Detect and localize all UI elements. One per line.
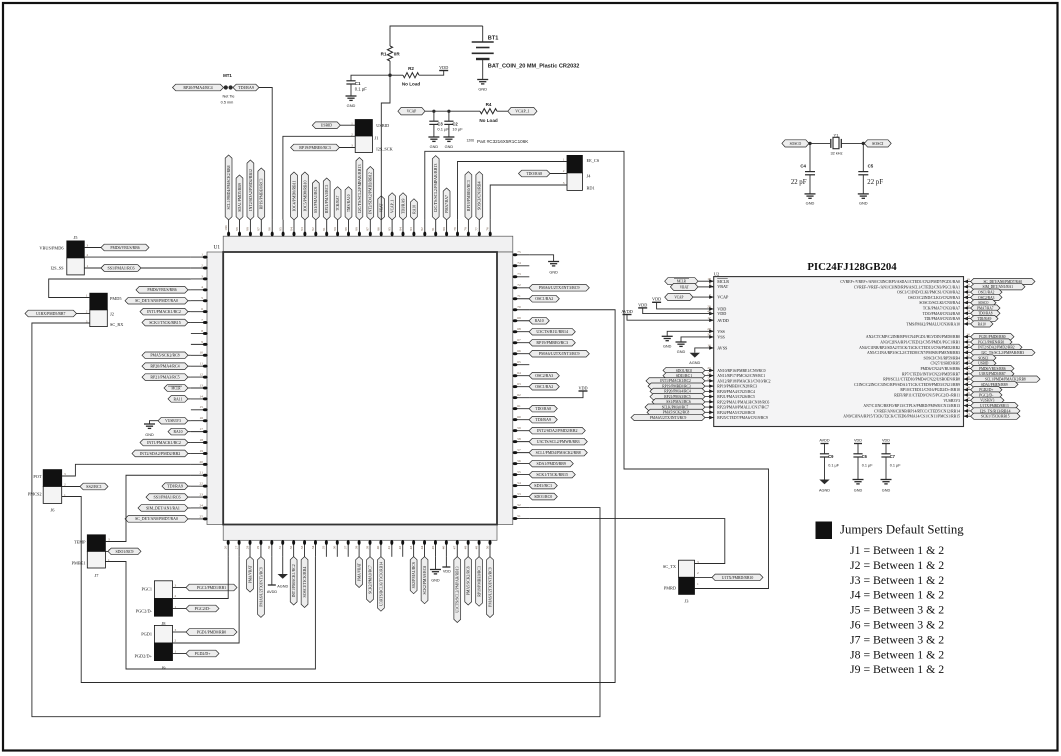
capacitor C4 (791, 143, 815, 194)
svg-text:OSC2/RA3: OSC2/RA3 (535, 373, 553, 378)
svg-text:RD1: RD1 (587, 186, 595, 191)
U1 pin 12 (142, 372, 208, 380)
U1 pin 44 (420, 540, 428, 604)
svg-text:OSCO/C2IND/CLKO/CN29/RA3: OSCO/C2IND/CLKO/CN29/RA3 (908, 296, 960, 300)
svg-text:VCAP_1: VCAP_1 (515, 109, 529, 114)
svg-text:65: 65 (517, 360, 521, 364)
svg-text:SCK1/T5CK/RB15: SCK1/T5CK/RB15 (981, 415, 1010, 419)
svg-text:25: 25 (200, 514, 204, 518)
U2 pin 43 RB5 (930, 359, 996, 366)
U1 pin 18 (140, 438, 208, 446)
svg-text:31: 31 (278, 545, 282, 549)
U1 pin 26 (224, 540, 230, 557)
svg-text:INT2/SDA2/PMD2/RB12: INT2/SDA2/PMD2/RB12 (248, 169, 253, 211)
U1 pin 88 (355, 158, 363, 237)
wire J6 pin 2 to flag (62, 486, 80, 488)
svg-text:RP20/PMA4/CN25/RC4: RP20/PMA4/CN25/RC4 (717, 390, 755, 394)
power VDD at C7 (882, 443, 890, 445)
U1 pin 53 (513, 492, 558, 500)
capacitor C6 (853, 444, 873, 480)
svg-text:INT2/SDA2/PMD2/RB2: INT2/SDA2/PMD2/RB2 (140, 451, 181, 456)
svg-text:46: 46 (442, 545, 446, 549)
U1 pin 97 (257, 168, 265, 236)
U1 pin 100 (224, 155, 232, 236)
node RP19/PMBE0/RC3 at J1 (291, 144, 340, 151)
svg-text:MT1: MT1 (223, 73, 232, 78)
U2 pin 23 RC0 (663, 366, 766, 373)
U2 pin 20 RA1 (854, 283, 1025, 290)
svg-text:AN7/C1INC/REFO/RP13/CTPLS/PMRD: AN7/C1INC/REFO/RP13/CTPLS/PMRD/PMWR/CN13… (863, 404, 960, 408)
ground at U2 pin 39 (681, 337, 714, 342)
svg-text:EE_CS: EE_CS (587, 158, 600, 163)
svg-text:GND: GND (882, 489, 891, 493)
wire J4 pin 3 to U1 pin 76 (490, 185, 567, 220)
svg-text:RP19/PMBE0/RC3: RP19/PMBE0/RC3 (476, 566, 481, 597)
svg-text:4: 4 (201, 285, 203, 289)
svg-text:RP21/PMA3/RC5: RP21/PMA3/RC5 (150, 374, 179, 379)
svg-text:PGD1/PMD0/RB0: PGD1/PMD0/RB0 (979, 335, 1006, 339)
svg-text:42: 42 (398, 545, 402, 549)
U2 pin 5 RC7 (645, 403, 769, 410)
jumper J6 labels (28, 472, 66, 513)
svg-text:SDA1/PMD5/RB9: SDA1/PMD5/RB9 (237, 183, 242, 212)
svg-text:SOSCI/T1CK/RB4: SOSCI/T1CK/RB4 (302, 567, 307, 598)
svg-text:TDO/PMA8/CN34/RA8: TDO/PMA8/CN34/RA8 (923, 312, 960, 316)
svg-text:RP23/PMA0/PMALL/CN17/RC7: RP23/PMA0/PMALL/CN17/RC7 (717, 406, 769, 410)
svg-text:VCAP_1: VCAP_1 (389, 200, 394, 213)
U1 pin 45 (431, 540, 437, 557)
svg-text:RP10/CTED11/CN16/PGD2/D+/RB10: RP10/CTED11/CN16/PGD2/D+/RB10 (900, 388, 960, 392)
U2 pin 36 RB0 (866, 333, 1014, 340)
svg-text:0.1 µF: 0.1 µF (828, 464, 840, 468)
U2 pin 49 RB11 (894, 391, 1002, 398)
svg-text:1206: 1206 (467, 139, 475, 143)
svg-text:U1RX/PMD5/RB7: U1RX/PMD5/RB7 (36, 311, 65, 316)
svg-text:PMA7/RA7: PMA7/RA7 (444, 195, 449, 213)
svg-text:58: 58 (517, 437, 521, 441)
node VBAT flag at U2 (670, 283, 698, 290)
svg-text:3: 3 (175, 584, 177, 588)
svg-text:SOSCI: SOSCI (872, 141, 884, 146)
svg-text:73: 73 (517, 272, 521, 276)
svg-text:57: 57 (517, 448, 521, 452)
svg-text:PMA6/U2TX/INT3/RC9: PMA6/U2TX/INT3/RC9 (539, 351, 580, 356)
U1 pin 94 (289, 172, 297, 236)
U1 pin 74 (513, 261, 530, 267)
wire J3 pin 2 to flag (695, 576, 713, 578)
U1 pin 99 (235, 175, 243, 236)
svg-text:PGD2/D+: PGD2/D+ (135, 654, 153, 659)
U2 MCLR pin overline (717, 277, 728, 279)
ground for C1 (346, 96, 357, 108)
U1 pin 49 (474, 540, 482, 606)
junction at C2 (447, 110, 450, 113)
svg-text:C7: C7 (890, 454, 896, 459)
svg-text:32 kHz: 32 kHz (830, 151, 842, 156)
U1 pin 54 (513, 481, 558, 489)
ground AGND at U2 pin 16 (695, 348, 714, 353)
wire J5 pin 2 to U1 pin 1 (84, 256, 191, 258)
U1 pin 76 (486, 220, 492, 237)
svg-text:87: 87 (366, 227, 370, 231)
wire VCAP to R4 (425, 110, 480, 112)
svg-text:SS2/PMA1/RC6: SS2/PMA1/RC6 (411, 562, 416, 588)
svg-text:PGC2/D-: PGC2/D- (979, 393, 994, 397)
U2 pin 4 RC6 (652, 398, 769, 405)
svg-text:PMA5/SCK2/RC8: PMA5/SCK2/RC8 (150, 353, 179, 358)
svg-text:97: 97 (257, 227, 261, 231)
svg-text:SCL1/PMD4/PMACK2/RB8: SCL1/PMD4/PMACK2/RB8 (226, 165, 231, 209)
svg-text:53: 53 (517, 492, 521, 496)
svg-text:47: 47 (453, 545, 457, 549)
U2 pin 52 RB14 (874, 407, 1020, 414)
svg-text:2: 2 (64, 483, 66, 487)
svg-text:26: 26 (224, 545, 228, 549)
node RP20/PMA4/RC4 at MT1 (173, 84, 224, 91)
wire J4 pin 1 to U1 pin 79 (458, 162, 568, 220)
svg-text:92: 92 (311, 227, 315, 231)
wire R1 to junction (389, 61, 391, 75)
svg-text:1: 1 (86, 294, 88, 298)
svg-text:PMA5/SCK2/RC8: PMA5/SCK2/RC8 (466, 567, 471, 596)
capacitor C7 (881, 444, 901, 480)
svg-text:38: 38 (354, 545, 358, 549)
svg-text:J8 = Between 1 & 2: J8 = Between 1 & 2 (850, 647, 944, 661)
svg-text:85: 85 (387, 227, 391, 231)
svg-text:TMS/PMA2/PMALU/CN36/RA10: TMS/PMA2/PMALU/CN36/RA10 (906, 322, 960, 326)
svg-text:SS2/RC1: SS2/RC1 (86, 484, 102, 489)
ground for BT1 (477, 80, 488, 92)
wire J3 pin 1 to U1 pin 82 long route (425, 151, 769, 588)
svg-text:GND: GND (445, 145, 454, 149)
ic U2 body (714, 277, 964, 427)
U2 pin 53 RB15 (843, 412, 1020, 419)
svg-text:0.1 µF: 0.1 µF (437, 127, 449, 132)
U1 pin 92 (311, 180, 319, 236)
svg-text:10 µF: 10 µF (452, 127, 463, 132)
junction at C3 (432, 110, 435, 113)
svg-text:43: 43 (409, 545, 413, 549)
U2 pin 25 RC2 (646, 377, 771, 384)
U2 pin 37 RB1 (880, 338, 1012, 345)
svg-text:94: 94 (289, 227, 293, 231)
svg-text:AN10/RP16/PMBE1/CN9/RC0: AN10/RP16/PMBE1/CN9/RC0 (717, 369, 765, 373)
svg-text:SS1/PMA1/RC6: SS1/PMA1/RC6 (666, 400, 691, 404)
svg-text:18: 18 (200, 438, 204, 442)
U1 pin 40 (376, 540, 384, 611)
svg-text:INT1/PMACK1/RC2: INT1/PMACK1/RC2 (660, 379, 691, 383)
jumper J8 labels (136, 584, 177, 627)
svg-text:PGD2/D+: PGD2/D+ (979, 388, 993, 392)
svg-text:33: 33 (300, 545, 304, 549)
svg-text:U1TX/PMRD/RB10: U1TX/PMRD/RB10 (722, 575, 754, 580)
svg-text:RP25/CTED7/PMA6/CN19/RC9: RP25/CTED7/PMA6/CN19/RC9 (717, 416, 768, 420)
U1 pin 90 (333, 187, 341, 237)
junction at C5 (862, 142, 865, 145)
power VDD at U2 pin 28 (657, 302, 714, 309)
U2 pin 40 VDD (707, 309, 726, 316)
node PMD6/VBUS/RB6 at J5 (101, 244, 149, 251)
jumper J1 labels (351, 121, 394, 151)
svg-text:SOSCI: SOSCI (978, 356, 989, 360)
svg-text:OSC1/C1IND/CLKI/PMCS1/CN30/RA2: OSC1/C1IND/CLKI/PMCS1/CN30/RA2 (897, 291, 960, 295)
svg-text:100: 100 (224, 225, 228, 230)
svg-text:14: 14 (200, 394, 204, 398)
svg-text:PMA/VBAT: PMA/VBAT (356, 563, 361, 581)
svg-text:TDI/RA9: TDI/RA9 (167, 484, 183, 489)
svg-text:SS1/PMA1/RC6: SS1/PMA1/RC6 (313, 187, 318, 213)
svg-text:PGC1/PMD1/RB1: PGC1/PMD1/RB1 (197, 585, 226, 590)
power VDD at U1 pin 46 (445, 557, 447, 567)
U1 pin 73 (513, 272, 530, 278)
svg-text:3: 3 (108, 538, 110, 542)
svg-text:SIM_DET/AN1/RA1: SIM_DET/AN1/RA1 (146, 505, 180, 510)
svg-text:63: 63 (517, 382, 521, 386)
wire J5 pin 3 to flag (84, 247, 101, 249)
U2 pin 28 VDD (707, 305, 726, 312)
U2 pin 31 RA4 (919, 299, 996, 306)
junction at R1 bottom (388, 74, 391, 77)
node TDO/RA8 at J4 (519, 170, 551, 177)
svg-text:SCK2/PMA9/RC8: SCK2/PMA9/RC8 (422, 566, 427, 595)
wire MT1 to U1 pin 96 (259, 88, 272, 220)
jumper J2 (90, 293, 108, 310)
U1 pin 71 (513, 294, 560, 302)
svg-text:RP21/PMA3/CN26/RC5: RP21/PMA3/CN26/RC5 (717, 395, 755, 399)
svg-text:SCL1/PMD4/PMACK2/RB8: SCL1/PMD4/PMACK2/RB8 (536, 450, 581, 455)
U1 pin 25 (125, 514, 208, 522)
svg-text:2: 2 (86, 310, 88, 314)
svg-text:75: 75 (517, 250, 521, 254)
svg-text:Y1: Y1 (834, 132, 840, 137)
svg-text:45: 45 (431, 545, 435, 549)
svg-text:74: 74 (517, 261, 521, 265)
svg-text:VBAT: VBAT (717, 284, 728, 289)
U2 pin 41 RB3 (867, 348, 1035, 355)
svg-text:1: 1 (87, 264, 89, 268)
jumper J7 (87, 535, 105, 552)
U1 pin 29 (256, 540, 264, 617)
svg-text:GND: GND (663, 345, 672, 349)
U2 pin 45 RB7 (902, 370, 1014, 377)
wire J6 pin 1 to U1 pin 70 long route (62, 310, 615, 683)
U1 pin 19 (132, 449, 208, 457)
svg-text:TDI/RA9: TDI/RA9 (977, 317, 991, 321)
svg-text:VDD: VDD (717, 311, 726, 316)
svg-text:39: 39 (365, 545, 369, 549)
svg-text:91: 91 (322, 227, 326, 231)
U1 pin 56 (513, 459, 574, 467)
svg-text:2: 2 (175, 639, 177, 643)
U1 pin 81 (431, 156, 439, 237)
wire junction to R2 (390, 74, 403, 76)
svg-text:PGC1/PMEN/RB1: PGC1/PMEN/RB1 (978, 340, 1005, 344)
U1 pin 62 (513, 393, 530, 399)
svg-text:22 pF: 22 pF (791, 179, 807, 186)
node MCLR flag at U2 (665, 278, 698, 285)
svg-text:3: 3 (175, 628, 177, 632)
U1 pin 93 (300, 172, 308, 236)
svg-text:1: 1 (697, 582, 699, 586)
ground at U1 pin 75 (529, 255, 553, 262)
wire J2 pin 1 to U1 pin 3 (49, 279, 191, 298)
U1 pin 34 (311, 540, 317, 557)
svg-text:PMA5/SCK2/RC8: PMA5/SCK2/RC8 (663, 411, 690, 415)
svg-text:IOC5/PMD8/RB10: IOC5/PMD8/RB10 (302, 181, 307, 212)
svg-text:0R: 0R (394, 52, 401, 57)
svg-text:SCK2/PMA0/RC7: SCK2/PMA0/RC7 (367, 565, 372, 594)
jumper J4 (567, 155, 582, 173)
svg-text:SC_RX: SC_RX (110, 322, 124, 327)
svg-text:PMA7/RA7: PMA7/RA7 (977, 306, 993, 310)
svg-text:AN11/RP17/PMCS2/CN9/RC1: AN11/RP17/PMCS2/CN9/RC1 (717, 374, 765, 378)
U2 pin 2 RC4 (650, 387, 755, 394)
svg-text:1: 1 (201, 253, 203, 257)
wire J9 pin 1 to flag (173, 653, 187, 655)
svg-text:RP19/PMBE0/RC3: RP19/PMBE0/RC3 (662, 384, 691, 388)
svg-text:CVREF/AN6/C3INB/RP14/RTCC/CTED: CVREF/AN6/C3INB/RP14/RTCC/CTED5/CN12/RB1… (874, 409, 960, 413)
svg-text:BT1: BT1 (488, 36, 499, 42)
svg-text:VDD: VDD (854, 439, 862, 443)
wire J2 pin 3 to U1 pin 52 long route (32, 323, 600, 717)
svg-text:96: 96 (268, 227, 272, 231)
ground at U1 pin 16 (150, 421, 159, 424)
svg-text:PMA6/U2TX/INT3/RC9: PMA6/U2TX/INT3/RC9 (650, 416, 687, 420)
svg-text:81: 81 (431, 227, 435, 231)
wire R4 to VCAP_1 (497, 110, 508, 112)
jumper J6 (43, 470, 62, 487)
svg-text:SS1/PMA1/RC6: SS1/PMA1/RC6 (153, 494, 180, 499)
svg-text:48: 48 (463, 545, 467, 549)
U1 pin 35 (322, 540, 328, 557)
svg-text:52: 52 (517, 503, 521, 507)
svg-text:98: 98 (246, 227, 250, 231)
svg-text:PMCS2: PMCS2 (28, 492, 42, 497)
U2 pin 30 RA3 (908, 293, 1002, 300)
svg-text:TMS/RA10: TMS/RA10 (346, 195, 351, 213)
svg-text:U1: U1 (214, 245, 221, 251)
svg-text:GND: GND (431, 579, 440, 583)
U1 pin 80 (442, 188, 450, 236)
wire J3 pin 3 to U1 pin 51 (529, 519, 725, 564)
svg-text:7: 7 (201, 318, 203, 322)
U1 pin 89 (344, 187, 352, 237)
svg-text:SDO1/RC0: SDO1/RC0 (676, 369, 692, 373)
svg-text:RP8/SCL1/CTED10/PMD4/CN22/USBO: RP8/SCL1/CTED10/PMD4/CN22/USBOEN/RB8 (883, 378, 960, 382)
wire J8 pin 1 to flag (173, 608, 187, 610)
jumper J3 labels (663, 560, 699, 604)
svg-text:0.1 µF: 0.1 µF (890, 464, 902, 468)
svg-text:RP24/PMA5/CN20/RC8: RP24/PMA5/CN20/RC8 (717, 411, 755, 415)
node USBID at J1 (312, 122, 340, 129)
svg-text:SC_DET/AN0/PMD7/RA0: SC_DET/AN0/PMD7/RA0 (135, 516, 178, 521)
svg-text:U2: U2 (714, 271, 720, 276)
U2 pin 44 RB6 (921, 364, 1014, 371)
svg-text:C5: C5 (868, 163, 874, 168)
U1 pin 3 (191, 274, 208, 280)
U1 pin 87 (366, 167, 374, 237)
svg-text:67: 67 (517, 338, 521, 342)
svg-text:2: 2 (87, 253, 89, 257)
U1 pin 46 (442, 540, 448, 557)
svg-text:VDD: VDD (443, 570, 451, 574)
svg-text:3: 3 (201, 274, 203, 278)
svg-text:VDD: VDD (882, 439, 890, 443)
U1 pin 33 (300, 540, 308, 607)
svg-text:GND: GND (430, 145, 439, 149)
svg-text:VDD: VDD (439, 65, 448, 70)
svg-text:34: 34 (311, 545, 315, 549)
legend jumpers default marker (816, 522, 833, 540)
svg-text:10: 10 (200, 351, 204, 355)
svg-text:AN12/RP18/PMACK1/CN10/RC2: AN12/RP18/PMACK1/CN10/RC2 (717, 379, 770, 383)
node SS1/PMA1/RC6 at J5 (101, 265, 141, 272)
U1 pin 36 (333, 540, 339, 557)
ground GND for C6 (853, 479, 864, 481)
ground for C3 (428, 137, 439, 149)
svg-text:SDA1/PMD5/RB9: SDA1/PMD5/RB9 (537, 461, 566, 466)
svg-text:GND: GND (347, 103, 356, 108)
U2 pin 17 AVDD (707, 316, 728, 323)
svg-text:J6 = Between 3 & 2: J6 = Between 3 & 2 (850, 618, 944, 632)
junction at C4 (808, 142, 811, 145)
svg-text:66: 66 (517, 349, 521, 353)
U1 pin 4 (136, 285, 208, 293)
svg-text:CVREF-/VREF-/AN1/C3IND/RP6/ASC: CVREF-/VREF-/AN1/C3IND/RP6/ASCL1/CTED2/C… (854, 285, 960, 289)
jumper J3 (679, 560, 695, 577)
svg-text:PMD6/VBUS/RB6: PMD6/VBUS/RB6 (110, 245, 139, 250)
svg-text:GND: GND (478, 87, 487, 92)
svg-text:J2: J2 (110, 312, 114, 317)
svg-text:AN9/C3INA/RP15/T3CK/T2CK/CTED6: AN9/C3INA/RP15/T3CK/T2CK/CTED6/PMA14/CS1… (843, 415, 960, 419)
svg-text:C2: C2 (452, 121, 458, 126)
U1 pin 70 (513, 305, 530, 311)
node SDO1/RC9 at J7 (108, 548, 141, 555)
power VDD at U1 pin 62 (529, 391, 583, 398)
svg-text:AVDD: AVDD (267, 590, 278, 594)
net tie MT1 (221, 73, 235, 104)
U1 pin 47 (453, 540, 461, 622)
svg-text:GND: GND (806, 201, 815, 206)
U1 pin 11 (142, 362, 208, 370)
svg-text:62: 62 (517, 393, 521, 397)
svg-text:0.5 mm: 0.5 mm (221, 100, 234, 104)
svg-text:50: 50 (485, 545, 489, 549)
U1 pin 79 (453, 220, 459, 237)
svg-text:AN4/C1INB/RP2/SDA2/T5CK/T4CK/C: AN4/C1INB/RP2/SDA2/T5CK/T4CK/CTED13/CN6/… (859, 346, 960, 350)
U1 pin 66 (513, 349, 590, 357)
U2 pin 35 RA10 (906, 320, 993, 327)
U2 pin 38 RB2 (859, 343, 1022, 350)
svg-text:80: 80 (442, 227, 446, 231)
svg-text:40: 40 (376, 545, 380, 549)
svg-text:TDO/RA8: TDO/RA8 (535, 406, 551, 411)
svg-text:INT2/SDA2/PMD2/RB2: INT2/SDA2/PMD2/RB2 (537, 428, 578, 433)
jumper J9 labels (135, 628, 177, 671)
svg-text:TDI/RA9: TDI/RA9 (238, 85, 254, 90)
power AVDD at U1 pin 30 (271, 557, 273, 585)
svg-text:RA10: RA10 (978, 322, 986, 326)
svg-text:OSC1/RA2: OSC1/RA2 (978, 290, 994, 294)
node VCAP_1 (508, 108, 537, 115)
svg-text:1: 1 (175, 650, 177, 654)
svg-text:RP21/PMA3/RC5: RP21/PMA3/RC5 (664, 395, 691, 399)
svg-text:INT2/SDA2/PMD2/RB2: INT2/SDA2/PMD2/RB2 (978, 346, 1015, 350)
svg-text:RP19/PMBE0/RC3: RP19/PMBE0/RC3 (299, 145, 331, 150)
svg-text:SOSCO/SCLKI/CN0/RA4: SOSCO/SCLKI/CN0/RA4 (919, 301, 960, 305)
svg-text:86: 86 (377, 227, 381, 231)
svg-text:AVDD: AVDD (621, 309, 633, 314)
